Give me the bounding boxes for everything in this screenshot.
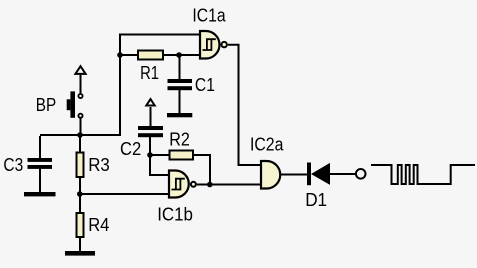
wire R3 top lead [79,135,81,153]
wire C3 bottom lead [39,168,41,193]
svg-text:C1: C1 [195,74,215,95]
wire R3 bottom lead [79,177,81,194]
wire R2 right to IC1b output node [193,155,210,185]
power VCC triangle above C2 [146,99,154,105]
wire waveform pulse train [371,165,475,184]
resistor R2 [170,151,194,160]
gate IC1a Schmitt NAND [200,31,227,59]
wire VCC to BP [80,75,82,94]
ground (C3) [24,192,56,196]
capacitor C3 [28,158,53,169]
svg-text:C2: C2 [120,138,141,159]
node junction C2/R2 [147,152,153,158]
node junction R1 left [117,52,123,58]
wire D1 to output terminal [330,173,356,175]
wire R4 top lead [79,194,81,214]
node output terminal circle [356,169,366,179]
svg-text:IC2a: IC2a [250,133,284,154]
svg-text:R1: R1 [140,62,159,83]
resistor R4 [77,213,84,237]
gate IC1b Schmitt NAND [169,171,196,198]
wire R2 left lead [150,154,169,156]
node junction R2/IC1b out [207,182,213,188]
wire R1 row [120,54,200,56]
resistor R3 [77,153,84,178]
wire R4 bottom lead [79,238,81,252]
wire C1 top lead [179,55,181,80]
wire IC1a output to IC2a top input [228,45,261,165]
wire IC2a output to D1 [281,174,308,176]
wire IC1b output to IC2a bottom input [197,184,261,186]
wire C2 bottom lead [149,137,151,155]
svg-text:D1: D1 [305,189,327,210]
node junction BP/C3/R3 [77,132,83,138]
wire main node row y135 [40,134,121,136]
svg-text:IC1b: IC1b [157,203,193,224]
gate IC2a AND [261,161,280,189]
svg-text:IC1a: IC1a [192,4,226,25]
resistor R1 [138,51,163,60]
wire IC1b top input [150,155,169,175]
svg-text:C3: C3 [3,154,23,175]
ground (C1) [167,113,192,117]
svg-text:R2: R2 [169,129,190,150]
wire C3 top lead [39,136,41,159]
wire C1 bottom lead [179,90,181,114]
svg-text:R4: R4 [88,214,109,235]
svg-text:R3: R3 [88,154,110,175]
wire feedback top: IC1a top input to left rail [120,35,200,136]
diode D1 [307,163,330,186]
capacitor C2 [138,126,163,137]
wire VCC to C2 [150,107,152,127]
pushbutton BP [67,91,83,117]
ground (R4) [65,251,95,256]
wire to IC1b bottom input [80,193,169,195]
node junction C1 top [176,52,182,58]
svg-text:BP: BP [36,94,56,115]
wire BP bottom lead [80,118,82,135]
power VCC triangle above BP [75,66,85,74]
node junction R3/R4 [77,191,83,197]
capacitor C1 [168,79,193,90]
